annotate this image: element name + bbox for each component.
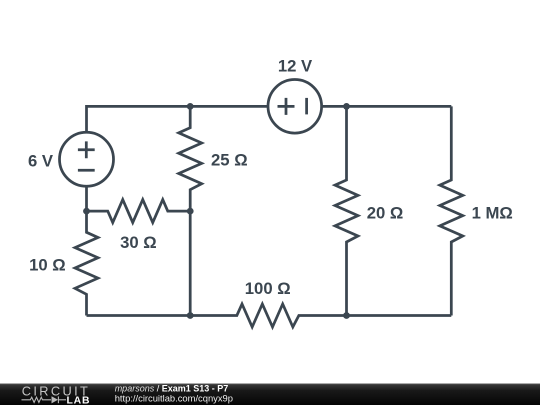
node junction right 30ohm bbox=[187, 208, 194, 215]
svg-text:LAB: LAB bbox=[67, 395, 91, 405]
CircuitLab logo resistor and diode glyph bbox=[22, 396, 67, 403]
node junction left 30ohm bbox=[83, 208, 90, 215]
resistor R6 100 ohm horizontal bbox=[190, 304, 346, 327]
V2 plus sign bbox=[278, 98, 295, 115]
resistor R3 10 ohm vertical bbox=[75, 211, 98, 315]
resistor R5 1 Mohm vertical bbox=[440, 106, 463, 315]
wire bottom right segment bbox=[347, 314, 452, 317]
footer bar bbox=[0, 384, 540, 405]
svg-text:25 Ω: 25 Ω bbox=[211, 151, 248, 170]
svg-text:1 MΩ: 1 MΩ bbox=[472, 204, 513, 223]
node junction top 25ohm bbox=[187, 103, 194, 110]
svg-text:30 Ω: 30 Ω bbox=[120, 233, 157, 252]
node junction bottom right 100ohm bbox=[343, 312, 350, 319]
voltage source V2 12V circle bbox=[268, 80, 322, 134]
wire 25 ohm node down to bottom bbox=[189, 211, 192, 315]
wire bottom left segment bbox=[87, 314, 191, 317]
V1 minus sign bbox=[78, 169, 95, 172]
resistor R1 25 ohm vertical bbox=[179, 106, 202, 211]
resistor R2 30 ohm horizontal bbox=[87, 200, 191, 223]
node junction bottom left 100ohm bbox=[187, 312, 194, 319]
node junction top 20ohm bbox=[343, 103, 350, 110]
wire top right segment bbox=[322, 105, 452, 108]
wire 6V bottom to node bbox=[85, 186, 88, 211]
svg-text:12 V: 12 V bbox=[278, 56, 313, 75]
svg-text:20 Ω: 20 Ω bbox=[367, 203, 404, 222]
svg-text:100 Ω: 100 Ω bbox=[245, 279, 291, 298]
svg-text:http://circuitlab.com/cqnyx9p: http://circuitlab.com/cqnyx9p bbox=[115, 392, 233, 403]
logo diode triangle bbox=[52, 396, 59, 403]
V1 plus sign bbox=[78, 141, 95, 158]
resistor R4 20 ohm vertical bbox=[335, 106, 358, 315]
wire top left segment bbox=[87, 106, 269, 132]
svg-text:6 V: 6 V bbox=[28, 151, 54, 170]
voltage source V1 6V circle bbox=[60, 132, 114, 186]
V2 minus bar bbox=[305, 98, 308, 115]
svg-text:10 Ω: 10 Ω bbox=[29, 256, 66, 275]
